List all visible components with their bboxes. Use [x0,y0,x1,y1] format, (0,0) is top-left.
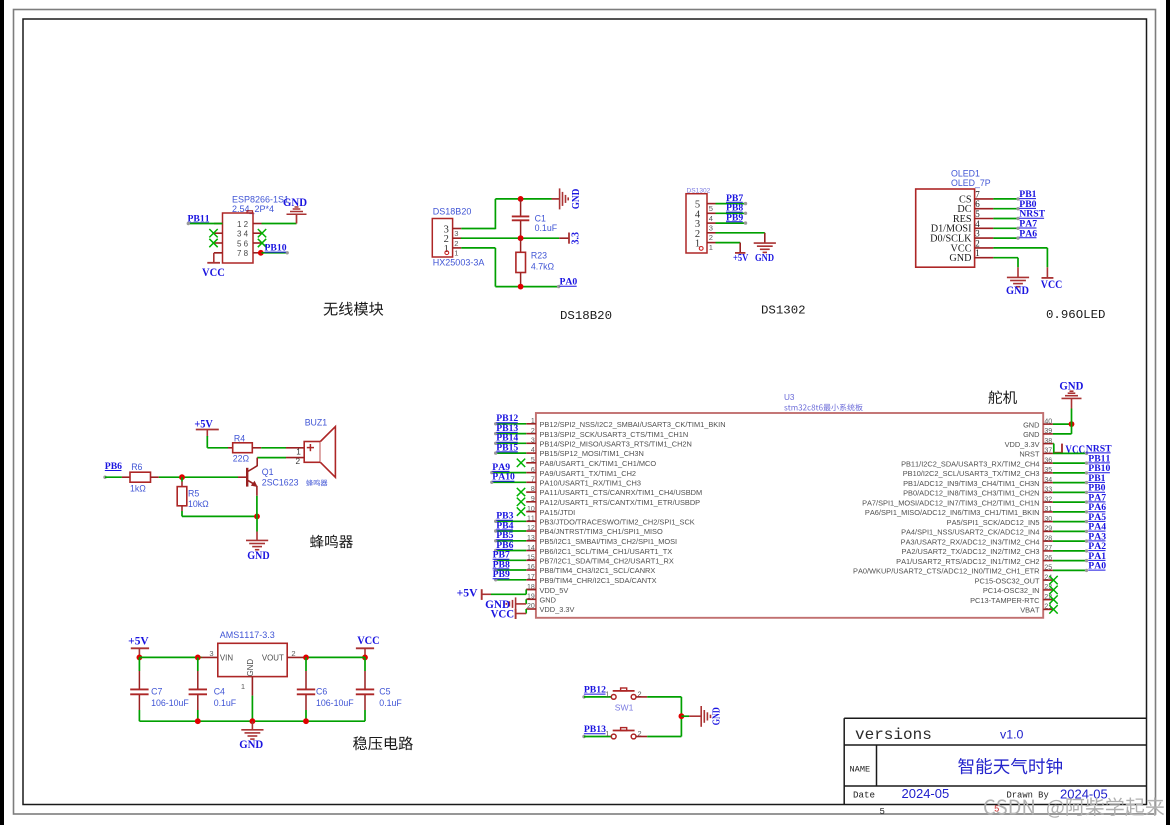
wire PB7 [495,559,526,561]
svg-text:34: 34 [1044,477,1052,484]
ground GND ds18b20 (rotated) [552,198,560,200]
svg-text:GND: GND [949,253,971,264]
svg-text:PB0/ADC12_IN8/TIM3_CH3/TIM1_CH: PB0/ADC12_IN8/TIM3_CH3/TIM1_CH2N [903,489,1039,498]
svg-text:PA3/USART2_RX/ADC12_IN3/TIM2_C: PA3/USART2_RX/ADC12_IN3/TIM2_CH4 [901,537,1040,546]
node junction pin8 [258,250,264,256]
svg-text:4: 4 [975,219,980,229]
svg-text:PB1/ADC12_IN9/TIM3_CH4/TIM1_CH: PB1/ADC12_IN9/TIM3_CH4/TIM1_CH3N [903,479,1039,488]
wire switch to common [636,696,647,698]
svg-text:+5V: +5V [457,588,479,600]
svg-text:4: 4 [709,214,713,223]
svg-text:106-10uF: 106-10uF [151,698,189,708]
svg-text:PB12/SPI2_NSS/I2C2_SMBAI/USART: PB12/SPI2_NSS/I2C2_SMBAI/USART3_CK/TIM1_… [540,420,726,429]
svg-text:2: 2 [709,233,713,242]
wire PB6 to R6 [103,476,106,479]
pin 3 PB14 [526,442,536,444]
svg-text:2: 2 [454,239,458,248]
pin 2 [707,232,716,234]
svg-text:3: 3 [709,224,713,233]
no-connect pin 9 [517,498,525,506]
wire common vertical [680,697,682,737]
svg-text:22Ω: 22Ω [233,454,250,464]
power VCC stm32 pin20 [515,609,517,619]
pin 2 [975,247,994,249]
svg-text:8: 8 [531,486,535,493]
pin 3 VIN [202,656,218,658]
node junction emitter [254,514,260,520]
svg-text:GND: GND [1023,430,1039,439]
wire pin2 to GND [716,232,765,234]
ground GND esp8266 [296,214,298,223]
transistor Q1 2SC1623 [256,458,258,466]
wire pin20 to VCC [525,609,527,614]
svg-text:1: 1 [454,249,458,258]
pin 15 PB7 [526,559,536,561]
svg-text:Date: Date [853,789,875,800]
wire pin3 up to top rail [461,228,495,230]
svg-text:6: 6 [975,199,980,209]
wire pin37 NRST [1053,452,1087,454]
pin 29 PA4 [1043,530,1053,532]
wire PA1 [1053,560,1087,562]
pin 1 [975,257,994,259]
svg-text:PB6/I2C1_SCL/TIM4_CH1/USART1_T: PB6/I2C1_SCL/TIM4_CH1/USART1_TX [540,547,673,556]
svg-text:PA10/USART1_RX/TIM1_CH3: PA10/USART1_RX/TIM1_CH3 [540,479,641,488]
wire R5 bottom rail [182,515,257,517]
pin 26 PA1 [1043,560,1053,562]
svg-text:PB9/TIM4_CHR/I2C1_SDA/CANTX: PB9/TIM4_CHR/I2C1_SDA/CANTX [540,576,657,585]
svg-text:PA5/SPI1_SCK/ADC12_IN5: PA5/SPI1_SCK/ADC12_IN5 [947,518,1040,527]
power 3.3 port [559,237,568,239]
svg-text:1: 1 [709,243,713,252]
svg-text:NRST: NRST [1019,450,1040,459]
wire PA2 [1053,550,1087,552]
svg-text:GND: GND [1023,420,1039,429]
svg-text:26: 26 [1044,555,1052,562]
wire PB12 [495,423,526,425]
pin 6 [975,208,994,210]
svg-text:R5: R5 [188,488,199,498]
svg-text:2: 2 [291,649,295,658]
wire BUZ1 pin2 to Q1 collector [286,457,304,459]
svg-text:36: 36 [1044,457,1052,464]
svg-text:2024-05: 2024-05 [902,786,950,801]
svg-text:GND: GND [239,738,263,751]
ground GND switches (rotated) [700,706,702,727]
svg-text:4: 4 [244,230,249,239]
wire PB13 to switch [582,735,585,738]
pin 18 VDD_5V [526,589,536,591]
svg-text:PA6/SPI1_MISO/ADC12_IN6/TIM3_C: PA6/SPI1_MISO/ADC12_IN6/TIM3_CH1/TIM1_BK… [865,508,1040,517]
svg-text:3: 3 [454,229,458,238]
svg-text:1: 1 [241,682,245,691]
node junction C6 top [303,655,309,661]
svg-text:PB7/I2C1_SDA/TIM4_CH2/USART1_R: PB7/I2C1_SDA/TIM4_CH2/USART1_RX [540,557,674,566]
pin 35 PB10 [1043,472,1053,474]
no-connect pin 4 [258,229,266,237]
svg-text:PA1/USART2_RTS/ADC12_IN1/TIM2_: PA1/USART2_RTS/ADC12_IN1/TIM2_CH2 [896,557,1039,566]
svg-text:13: 13 [527,535,535,542]
no-connect pin 23 [1049,586,1057,595]
ground GND stm32 top [1062,397,1082,399]
resistor R6 [122,476,130,478]
capacitor C1 [520,199,522,216]
svg-text:AMS1117-3.3: AMS1117-3.3 [220,630,275,640]
svg-text:10kΩ: 10kΩ [188,499,209,509]
pin 3 [214,232,223,234]
capacitor C5 [364,657,366,671]
svg-text:OLED_7P: OLED_7P [951,178,991,188]
svg-text:PA0/WKUP/USART2_CTS/ADC12_IN0/: PA0/WKUP/USART2_CTS/ADC12_IN0/TIM2_CH1_E… [853,567,1039,576]
pin 36 PB11 [1043,462,1053,464]
wire pin8 to PB10 [262,252,288,254]
svg-text:PC15-OSC32_OUT: PC15-OSC32_OUT [975,576,1040,585]
pin 5 [975,218,994,220]
svg-text:33: 33 [1044,487,1052,494]
svg-text:1: 1 [237,220,242,229]
ground GND ds1302 [754,242,776,244]
svg-text:PC13-TAMPER-RTC: PC13-TAMPER-RTC [970,596,1040,605]
no-connect pin 22 [1049,595,1057,603]
power +5V regulator [131,647,149,649]
svg-text:2: 2 [296,457,301,466]
svg-text:C7: C7 [151,687,162,697]
svg-text:19: 19 [527,594,535,601]
pin 2 VOUT [287,656,305,658]
wire +5V down to R4 [206,436,208,448]
svg-text:GND: GND [1059,380,1083,393]
pin 1 PB12 [526,423,536,425]
resistor R5 [181,477,183,481]
svg-text:PB13/SPI2_SCK/USART3_CTS/TIM1_: PB13/SPI2_SCK/USART3_CTS/TIM1_CH1N [540,430,689,439]
svg-text:GND: GND [540,596,556,605]
svg-text:40: 40 [1044,418,1052,425]
svg-text:GND: GND [1006,284,1029,297]
no-connect pin 21 [1049,605,1057,614]
svg-text:NAME: NAME [850,764,871,774]
mcu body stm32 minimal system board [536,413,1043,618]
svg-text:GND: GND [755,252,774,264]
no-connect pin 5 [209,239,217,247]
svg-text:4.7kΩ: 4.7kΩ [531,262,555,272]
svg-text:GND: GND [247,550,270,562]
node junction C1 top [518,196,524,202]
svg-text:BUZ1: BUZ1 [305,418,328,428]
svg-text:29: 29 [1044,526,1052,533]
svg-text:20: 20 [527,603,535,610]
svg-text:0.1uF: 0.1uF [535,223,558,233]
pin 17 PB9 [526,579,536,581]
svg-text:ESP8266-1S1: ESP8266-1S1 [232,195,289,205]
svg-text:2: 2 [244,220,249,229]
wire pin1 to rail [251,696,253,722]
svg-text:5: 5 [709,204,713,213]
svg-text:GND: GND [283,196,307,209]
wire pin38 to VCC [1052,443,1055,445]
pin 7 [214,252,223,254]
svg-text:1kΩ: 1kΩ [130,483,146,493]
pin 1 [453,247,462,249]
pin 32 PA7 [1043,501,1053,503]
node junction R23 bottom [518,284,524,290]
wire pin40 to GND [1053,423,1072,425]
wire PB9 [495,579,526,581]
caption wireless module [324,302,384,316]
pin 6 PA9 [526,472,536,474]
wire junction to GND [681,715,689,717]
wire PB6 [495,550,526,552]
pin 3 [975,237,994,239]
power +5V ds1302 [735,252,745,254]
svg-text:PB15/SP12_MOSI/TIM1_CH3N: PB15/SP12_MOSI/TIM1_CH3N [540,449,644,458]
svg-text:C1: C1 [535,213,546,223]
resistor R4 [228,447,233,449]
wire PB1 [1053,482,1087,484]
svg-text:VDD_3.3V: VDD_3.3V [540,605,575,614]
pin 38 VDD_3.3V [1043,443,1053,445]
display body OLED [916,189,975,267]
pin 2 [453,237,462,239]
wire PB15 [495,452,526,454]
wire R6 to Q1 base [159,476,238,478]
svg-text:PB10/I2C2_SCL/USART3_TX/TIM2_C: PB10/I2C2_SCL/USART3_TX/TIM2_CH3 [903,469,1040,478]
wire R4 to BUZ1 pin1 [261,447,286,449]
pin 21 VBAT [1043,608,1053,610]
capacitor C7 [138,657,140,671]
wire PB11 to pin1 [188,223,223,225]
svg-text:9: 9 [531,496,535,503]
pin 30 PA5 [1043,521,1053,523]
svg-text:0.1uF: 0.1uF [379,698,402,708]
svg-text:15: 15 [527,555,535,562]
svg-text:30: 30 [1044,516,1052,523]
watermark CSDN [984,797,1164,817]
svg-text:PB4/JNTRST/TIM3_CH1/SPI1_MISO: PB4/JNTRST/TIM3_CH1/SPI1_MISO [540,527,663,536]
svg-text:14: 14 [527,545,535,552]
svg-text:PB14/SPI2_MISO/USART3_RTS/TIM1: PB14/SPI2_MISO/USART3_RTS/TIM1_CH2N [540,440,692,449]
svg-text:C5: C5 [379,687,390,697]
svg-text:0.1uF: 0.1uF [214,698,237,708]
svg-text:GND: GND [711,707,722,725]
switch body [611,695,616,700]
svg-text:U3: U3 [784,393,795,402]
pin 5 [707,203,716,205]
wire PA10 [492,481,527,483]
pin 19 GND [526,598,536,600]
wire PA3 [1053,540,1087,542]
pin 1 GND [251,677,253,696]
pin 37 NRST [1043,452,1053,454]
pin 14 PB6 [526,550,536,552]
wire pin5 PB7 [716,203,746,205]
svg-text:DS18B20: DS18B20 [433,206,472,216]
power +5V stm32 pin18 [481,589,483,600]
no-connect pin 24 [1049,576,1057,584]
switch body [611,734,616,739]
wire GND bottom rail [139,720,365,722]
svg-text:0.96OLED: 0.96OLED [1046,308,1106,322]
pin 9 PA12 [526,501,536,503]
svg-text:106-10uF: 106-10uF [316,698,354,708]
power VCC oled [1046,267,1048,277]
svg-text:VIN: VIN [220,653,233,662]
svg-text:12: 12 [527,525,535,532]
wire pin 6 [993,208,1018,210]
svg-text:5: 5 [880,807,885,817]
svg-text:VCC: VCC [357,634,380,647]
node junction C6 bottom [303,718,309,724]
title block [844,717,1146,719]
svg-text:+5V: +5V [128,635,149,647]
wire pin18 to +5V [526,589,536,591]
pin 1 [214,223,223,225]
svg-text:VDD_3.3V: VDD_3.3V [1005,440,1040,449]
wire PB0 [1053,491,1087,493]
wire PA0 [1053,569,1087,571]
wire pin1 to +5V [716,242,741,244]
wire PB13 [495,433,526,435]
wire PB5 [495,540,526,542]
wire pin4 PB8 [716,212,746,214]
svg-text:37: 37 [1044,448,1052,455]
svg-text:PA9/USART1_TX/TIM1_CH2: PA9/USART1_TX/TIM1_CH2 [540,469,637,478]
node junction +5V [137,655,143,661]
svg-text:5: 5 [237,239,242,248]
wire PB8 [495,569,526,571]
svg-text:VCC: VCC [202,266,225,279]
svg-text:PB8/TIM4_CH3/I2C1_SCL/CANRX: PB8/TIM4_CH3/I2C1_SCL/CANRX [540,566,656,575]
svg-text:1: 1 [975,248,980,258]
connector body ESP8266 [223,213,254,263]
node junction base/R5 [179,474,185,480]
svg-text:PA8/USART1_CK/TIM1_CH1/MCO: PA8/USART1_CK/TIM1_CH1/MCO [540,459,657,468]
svg-text:C4: C4 [214,687,225,697]
svg-text:7: 7 [531,477,535,484]
svg-text:PA11/USART1_CTS/CANRX/TIM1_CH4: PA11/USART1_CTS/CANRX/TIM1_CH4/USBDM [540,488,703,497]
svg-text:5: 5 [975,209,980,219]
connector body DS1302 [686,194,707,253]
svg-text:28: 28 [1044,535,1052,542]
no-connect pin 3 [209,229,217,237]
svg-text:5: 5 [531,457,535,464]
svg-text:VDD_5V: VDD_5V [540,586,569,595]
wire pin1 down to bottom rail [461,247,495,249]
wire +5V rail to VIN [139,656,201,658]
pin 31 PA6 [1043,511,1053,513]
wire pin1 to GND [993,257,1018,259]
caption buzzer [310,535,353,548]
svg-text:6: 6 [244,239,249,248]
pin 11 PB3 [526,520,536,522]
svg-text:31: 31 [1044,506,1052,513]
svg-text:10: 10 [527,506,535,513]
wire pin 7 [993,198,1018,200]
pin 33 PB0 [1043,491,1053,493]
wire bottom rail PA0 [495,286,558,288]
svg-text:v1.0: v1.0 [1000,727,1024,741]
regulator body AMS1117 [218,643,287,676]
ground GND oled [1017,267,1019,277]
svg-text:R6: R6 [131,462,142,472]
pin 13 PB5 [526,540,536,542]
pin 20 VDD_3.3V [526,608,536,610]
pin 4 [707,212,716,214]
wire junction to GND [256,516,258,531]
wire middle rail 3.3 [461,237,559,239]
capacitor C4 [197,657,199,671]
node junction GND [250,718,256,724]
svg-text:4: 4 [531,447,535,454]
no-connect pin 8 [517,488,525,496]
svg-text:PB11/I2C2_SDA/USART3_RX/TIM2_C: PB11/I2C2_SDA/USART3_RX/TIM2_CH4 [901,459,1039,468]
power VCC regulator [356,647,374,649]
wire PB11 [1053,462,1087,464]
wire PB3 [495,520,526,522]
svg-text:39: 39 [1044,428,1052,435]
svg-text:PA7/SPI1_MOSI/ADC12_IN7/TIM3_C: PA7/SPI1_MOSI/ADC12_IN7/TIM3_CH2/TIM1_CH… [862,498,1039,507]
svg-text:Drawn By: Drawn By [1007,790,1049,800]
svg-text:3: 3 [237,230,242,239]
title text smart weather clock [958,758,1062,774]
svg-text:Q1: Q1 [262,467,274,477]
svg-text:GND: GND [571,188,582,209]
pin 1 [707,242,716,244]
pin 10 PA15 [526,511,536,513]
pin 7 PA10 [526,481,536,483]
wire PB14 [495,442,526,444]
svg-text:2SC1623: 2SC1623 [262,478,299,488]
wire PB10 [1053,472,1087,474]
svg-text:16: 16 [527,564,535,571]
pin 4 [253,232,262,234]
svg-text:PB5/I2C1_SMBAI/TIM3_CH2/SPI1_M: PB5/I2C1_SMBAI/TIM3_CH2/SPI1_MOSI [540,537,678,546]
wire pin 4 [993,227,1018,229]
svg-text:PC14-OSC32_IN: PC14-OSC32_IN [983,586,1040,595]
pin 7 [975,198,994,200]
wire pin 5 [993,218,1018,220]
svg-text:11: 11 [527,516,535,523]
svg-text:+5V: +5V [733,252,748,264]
node junction middle [518,235,524,241]
pin 2 PB13 [526,433,536,435]
wire top rail [495,198,551,200]
pin 3 [453,228,462,230]
ground GND stm32 pin19 (rotated) [515,597,517,610]
wire PB12 to switch [582,695,585,698]
pin 5 [214,242,223,244]
svg-text:PA12/USART1_RTS/CANTX/TIM1_ETR: PA12/USART1_RTS/CANTX/TIM1_ETR/USBDP [540,498,701,507]
svg-text:3: 3 [209,649,213,658]
pin 40 GND [1043,423,1053,425]
svg-text:HX25003-3A: HX25003-3A [433,258,485,268]
svg-text:VOUT: VOUT [262,653,284,662]
pin 4 [975,227,994,229]
pin 16 PB8 [526,569,536,571]
svg-text:versions: versions [855,726,932,744]
wire switch to common [636,736,647,738]
svg-text:27: 27 [1044,545,1052,552]
pin 4 PB15 [526,452,536,454]
svg-text:R4: R4 [234,433,245,443]
pin 3 [707,222,716,224]
pin 27 PA2 [1043,550,1053,552]
svg-text:1: 1 [605,689,609,698]
pin 24 PC15-OSC32_OUT [1043,579,1053,581]
svg-text:25: 25 [1044,565,1052,572]
svg-text:17: 17 [527,574,535,581]
wire emitter to junction [256,496,258,517]
svg-text:VCC: VCC [1041,278,1063,291]
